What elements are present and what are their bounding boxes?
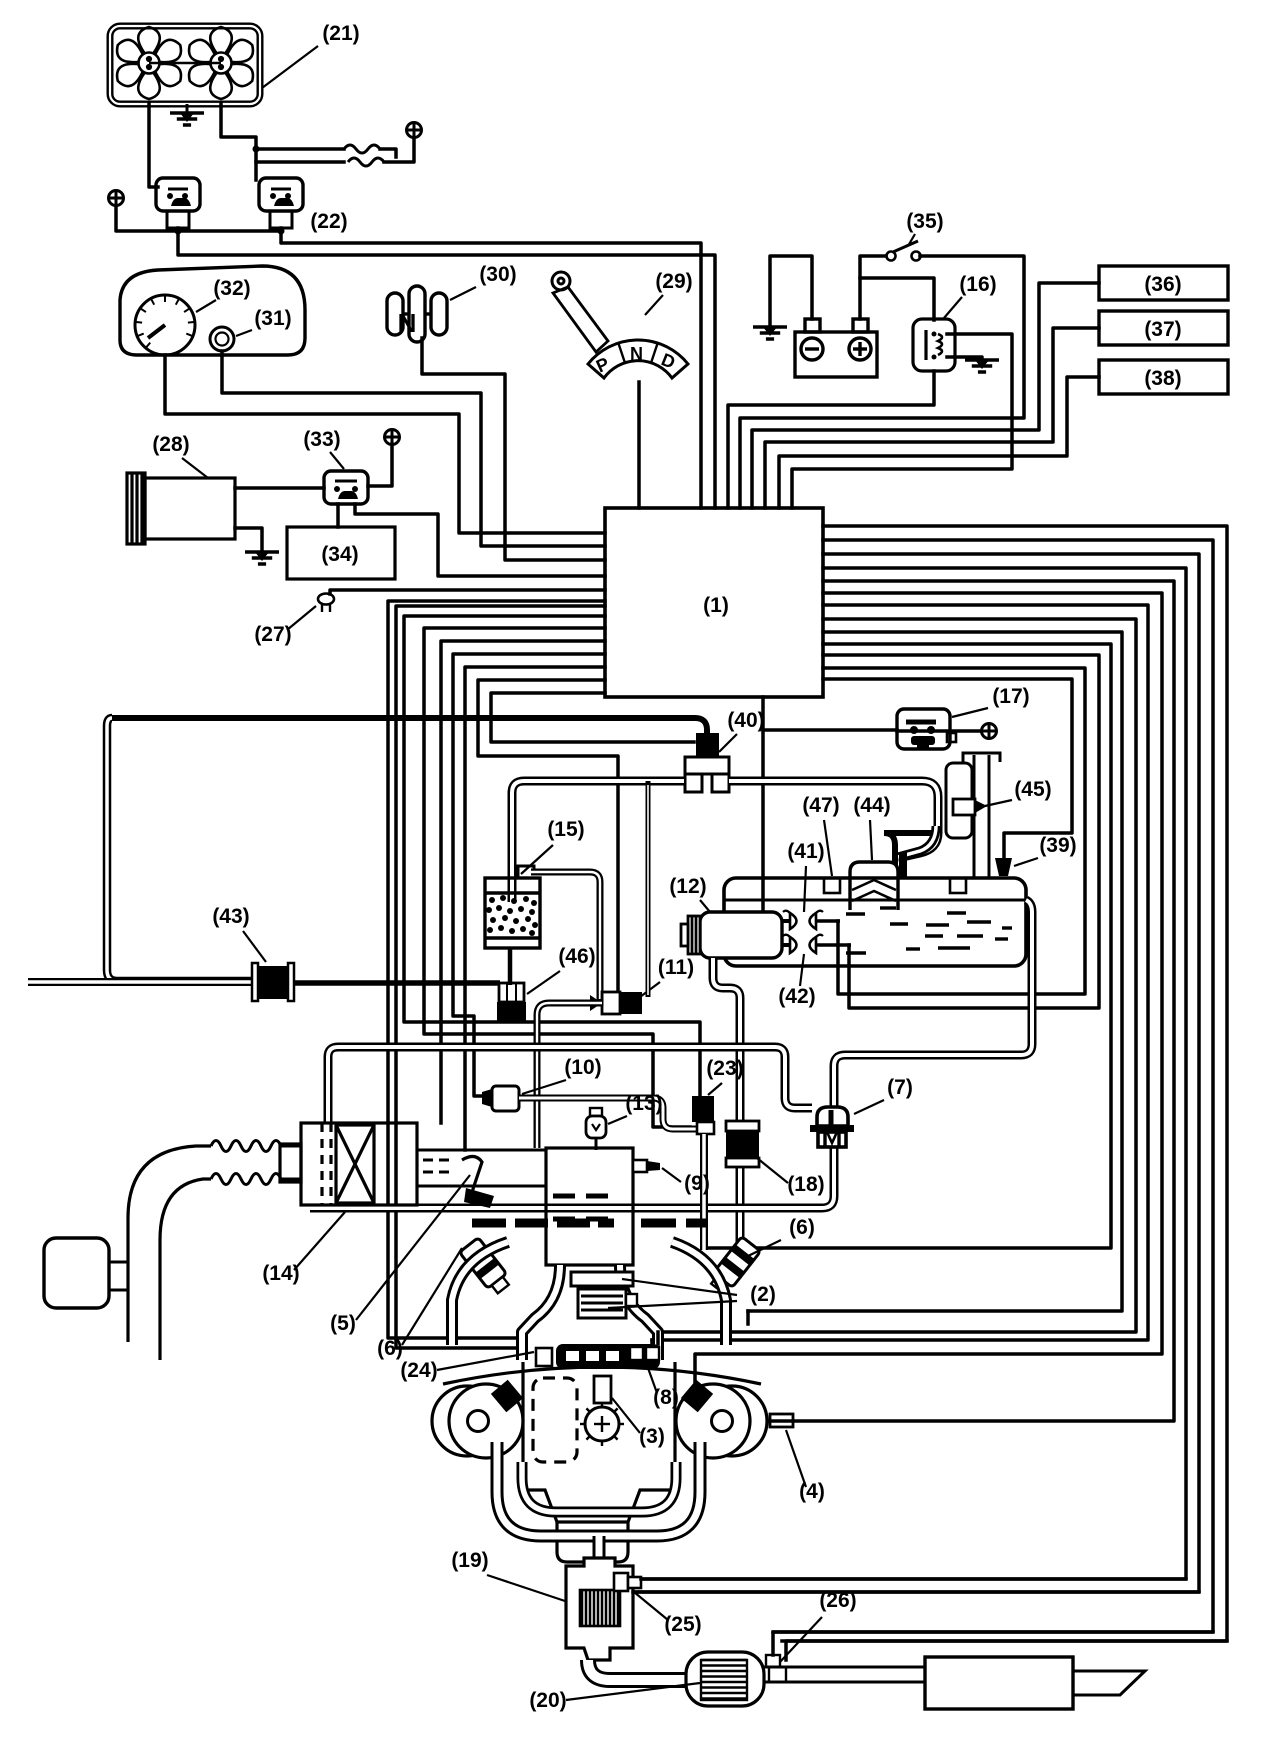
wire shift indicator to ECM: [637, 382, 641, 508]
ignition coil (2): [571, 1272, 633, 1286]
svg-text:(14): (14): [262, 1262, 299, 1285]
wire ECM to valve (42): [823, 655, 1099, 1008]
wire ECM loop 25b: [633, 554, 1199, 1592]
thick line to solenoid 40: [112, 718, 707, 736]
pipe 10 to 23: [519, 1098, 697, 1129]
intake manifold chamber: [546, 1148, 633, 1265]
pipe 40 to filler assembly: [729, 781, 938, 858]
intake gasket dark dashes: [472, 1219, 706, 1228]
svg-text:(15): (15): [547, 818, 584, 841]
fan relay 2 (22): [259, 178, 303, 228]
wire ECM to engine left: [388, 601, 605, 1338]
idle air valve (5): [462, 1156, 482, 1198]
wire 26 to right harness b: [786, 1641, 1227, 1660]
wire cluster to ECM: [165, 355, 605, 533]
label pointer: [944, 297, 962, 318]
fusible link lower: [348, 158, 384, 166]
label pointer: [800, 954, 804, 986]
rollover valve (47) fitting: [824, 878, 840, 893]
purge solenoid (40): [696, 733, 719, 757]
throttle body: [417, 1150, 546, 1186]
label pointer: [634, 1592, 668, 1620]
svg-text:(47): (47): [802, 794, 839, 817]
tank sender terminal (39): [995, 858, 1012, 876]
injector right (6): [707, 1236, 760, 1295]
charcoal canister (15): [485, 878, 540, 948]
wire ECM loop rail2: [658, 619, 1136, 1332]
svg-text:(6): (6): [789, 1216, 815, 1239]
label pointer: [908, 234, 915, 246]
thick hose canister to valve 11: [531, 872, 600, 1003]
wire ECM to right head: [695, 593, 1162, 1382]
label pointer: [612, 1398, 640, 1433]
svg-text:(8): (8): [653, 1386, 679, 1409]
indicator lamp (31): [210, 327, 234, 351]
wire fan link: [149, 62, 221, 64]
label pointer: [622, 1279, 737, 1295]
valve outlet stubs: [816, 919, 840, 923]
sensor (9): [633, 1160, 647, 1172]
svg-text:(2): (2): [750, 1283, 776, 1306]
power terminal left: [109, 191, 124, 206]
svg-text:(27): (27): [254, 623, 291, 646]
power terminal relay33: [385, 430, 400, 445]
wire fuse join: [380, 149, 396, 157]
vapor filter (18): [726, 1121, 759, 1131]
oxygen sensor (25): [614, 1573, 628, 1591]
label pointer: [640, 982, 660, 997]
svg-text:(39): (39): [1039, 834, 1076, 857]
wire ECM to sensor (23): [404, 616, 700, 1096]
shift selector (29): [552, 272, 688, 378]
pipe stub left: [28, 978, 252, 986]
label pointer: [645, 295, 663, 315]
svg-text:(17): (17): [992, 685, 1029, 708]
fan relay 1 (22): [156, 178, 200, 228]
label pointer: [287, 606, 316, 630]
crank sensor (3): [594, 1376, 611, 1403]
label pointer: [243, 931, 266, 962]
pipe 7 to throttle area: [310, 1144, 834, 1208]
air cleaner (14): [280, 1123, 417, 1205]
svg-text:(11): (11): [658, 956, 694, 979]
label pointer: [662, 1168, 681, 1182]
svg-text:(22): (22): [310, 210, 347, 233]
svg-text:(1): (1): [703, 594, 729, 617]
label pointer: [566, 1683, 700, 1700]
wire power to relay2: [116, 206, 281, 231]
vsv valve (10): [482, 1089, 492, 1107]
wire ECM to IAC (5): [465, 667, 605, 1150]
label pointer: [402, 1248, 462, 1345]
label pointer: [748, 1240, 781, 1256]
svg-text:(34): (34): [321, 543, 358, 566]
engine right head: [697, 1386, 767, 1456]
fan motor right: [189, 27, 253, 99]
wire ECM loop rail1: [652, 605, 1148, 1340]
wire relay1 to ECM: [178, 228, 715, 508]
junction dot: [253, 146, 260, 153]
resonator box: [44, 1238, 109, 1308]
center muffler (20): [686, 1652, 764, 1706]
label pointer: [804, 866, 806, 912]
pipe canister12 to injector via 18: [713, 958, 740, 1264]
power terminal 17: [982, 724, 997, 739]
label pointer: [719, 734, 737, 752]
exhaust outlet: [593, 1536, 606, 1572]
fan motor left: [117, 27, 181, 99]
wire blower to relay33: [235, 486, 324, 490]
thick wire 43 to 46: [294, 980, 500, 986]
fuel tank: [724, 878, 1026, 966]
wire box36 to ECM: [752, 283, 1099, 508]
svg-text:(40): (40): [727, 709, 764, 732]
label pointer: [870, 820, 872, 860]
svg-text:(42): (42): [778, 985, 815, 1008]
two-way valve (45): [953, 799, 975, 815]
svg-text:(9): (9): [684, 1172, 710, 1195]
switch (35): [887, 252, 896, 261]
wire fan1 to relay: [149, 104, 158, 187]
instrument cluster housing (32): [120, 266, 305, 355]
fuel rail dark band: [556, 1344, 660, 1369]
wire 25 to right harness a: [641, 1577, 1186, 1581]
valve (42): [790, 937, 816, 953]
label pointer: [262, 46, 318, 88]
label pointer: [648, 1368, 657, 1393]
wire ECM loop inj-r: [748, 632, 1122, 1311]
svg-text:(30): (30): [479, 263, 516, 286]
label pointer: [330, 452, 344, 469]
rear silencer: [925, 1657, 1073, 1709]
tail tip: [1073, 1671, 1145, 1695]
air intake duct: [128, 1146, 211, 1342]
diagnostic connector (27): [318, 594, 334, 605]
ground blower: [245, 552, 279, 564]
label pointer: [854, 1100, 884, 1114]
pipe 40-branch to 11: [646, 781, 651, 997]
plug connectors (24): [491, 1380, 523, 1413]
wire ECM to 23 line: [704, 644, 1111, 1248]
camshaft sprocket: [585, 1407, 619, 1441]
svg-text:(21): (21): [322, 22, 359, 45]
svg-text:(19): (19): [451, 1549, 488, 1572]
svg-text:(38): (38): [1144, 367, 1181, 390]
svg-text:(33): (33): [303, 428, 340, 451]
wire to fuse upper: [256, 147, 344, 151]
wire to main relay: [860, 278, 934, 320]
wire ECM to valve (11): [478, 680, 618, 990]
check valve (11): [590, 995, 602, 1011]
label pointer: [757, 1158, 788, 1183]
exhaust pipe to muffler: [588, 1660, 688, 1680]
svg-text:(32): (32): [213, 277, 250, 300]
svg-text:(37): (37): [1144, 318, 1181, 341]
oxygen sensor (26): [766, 1655, 780, 1667]
vapor canister (12): [700, 912, 782, 958]
ground relay16: [965, 360, 999, 372]
thick hose 11 to manifold: [537, 1003, 602, 1148]
wire relay16 to ground: [947, 357, 982, 360]
corrugated hose: [211, 1141, 281, 1152]
pipe air cleaner to 7: [328, 1047, 812, 1123]
label pointer: [182, 458, 208, 478]
wire fuse to battery feed: [384, 138, 414, 162]
wire stub rail: [650, 1340, 654, 1346]
svg-text:(4): (4): [799, 1480, 825, 1503]
wire stub right injector: [746, 1311, 750, 1324]
damper (8): [630, 1347, 643, 1360]
wire battery plus to switch: [860, 256, 886, 319]
ground battery: [753, 327, 787, 339]
junction dots: [175, 228, 182, 235]
svg-text:(20): (20): [529, 1689, 566, 1712]
label pointer: [608, 1301, 737, 1308]
ground fan: [170, 113, 204, 125]
svg-text:(28): (28): [152, 433, 189, 456]
label pointer: [1014, 858, 1038, 866]
wire 27 to ECM: [330, 590, 605, 594]
sensor (4): [770, 1414, 793, 1427]
label pointer: [522, 1080, 566, 1094]
label pointer: [952, 708, 988, 717]
wire to sender unit 17: [763, 728, 897, 732]
thick pipe drop to pump: [898, 826, 936, 857]
speedometer gauge: [135, 295, 195, 355]
intake runner outer left: [452, 1242, 508, 1345]
label pointer: [786, 1430, 806, 1487]
svg-text:(23): (23): [706, 1057, 743, 1080]
wire box38 to ECM: [779, 377, 1099, 508]
svg-text:(25): (25): [664, 1613, 701, 1636]
pipe 23 down: [700, 1134, 708, 1250]
pipe 40 to canister 15: [512, 781, 684, 902]
intake runner right: [620, 1265, 658, 1360]
wire ECM to 23 lower: [424, 628, 690, 1127]
svg-text:(18): (18): [787, 1173, 824, 1196]
wire relay33 to box34: [336, 504, 340, 527]
wire battery minus to ground: [770, 256, 812, 327]
tank top fitting right: [950, 878, 966, 893]
wire ECM to air cleaner a: [441, 641, 605, 1123]
engine left head: [432, 1386, 502, 1456]
wire ECM to valve (41): [823, 668, 1085, 994]
battery: [795, 319, 877, 377]
fuel filler neck: [946, 753, 1000, 877]
wire fan frame to ground: [186, 104, 189, 113]
blower motor (28): [127, 473, 235, 544]
svg-text:(5): (5): [330, 1312, 356, 1335]
module box (38): [1099, 360, 1228, 394]
wire ECM loop 4: [793, 581, 1174, 1421]
svg-text:(36): (36): [1144, 273, 1181, 296]
svg-text:(41): (41): [787, 840, 824, 863]
radiator fan assembly (21) frame: [110, 26, 260, 104]
map sensor (13): [590, 1108, 602, 1116]
connector (46): [499, 983, 524, 1002]
connector (43): [256, 966, 290, 999]
relay (33): [324, 471, 368, 504]
svg-text:(45): (45): [1014, 778, 1051, 801]
pipe 7 to tank: [834, 900, 1032, 1108]
wire 26 to right harness a: [773, 1632, 1213, 1655]
label pointer: [196, 300, 216, 312]
wire relay16 to ECM: [728, 371, 934, 508]
engine block: [443, 1362, 761, 1562]
svg-text:(35): (35): [906, 210, 943, 233]
exhaust crossover: [497, 1442, 700, 1536]
wire ECM to engine left 2: [396, 606, 605, 1348]
canister top fitting: [518, 866, 534, 878]
module box (36): [1099, 266, 1228, 300]
intake runner left: [522, 1265, 560, 1360]
wire ECM loop 25a: [641, 568, 1186, 1579]
wire 17 to power: [897, 729, 981, 733]
valve (41): [790, 913, 816, 929]
battery feed terminal: [407, 123, 422, 138]
wire ECM to solenoid (40): [491, 693, 694, 742]
svg-text:(43): (43): [212, 905, 249, 928]
label pointer: [780, 1617, 822, 1662]
wire 25 to right harness b: [633, 1590, 1199, 1594]
wire ECM loop 26a: [782, 526, 1227, 1641]
wire ECM to fuel sender (39): [823, 679, 1072, 858]
wire 4 stub: [770, 1419, 793, 1423]
label pointer: [450, 287, 476, 300]
label pointer: [700, 900, 710, 912]
fusible link upper: [344, 145, 380, 153]
label pointer: [527, 971, 560, 994]
label pointer: [824, 820, 832, 876]
wire to fuse lower: [256, 160, 344, 164]
pressure sensor (23): [692, 1096, 714, 1122]
wire switch to ECM: [740, 256, 1024, 508]
svg-text:(46): (46): [558, 945, 595, 968]
canister drain pipe: [508, 948, 513, 985]
intake runner outer right: [672, 1242, 726, 1345]
box (34): [287, 527, 395, 579]
label pointer: [356, 1175, 470, 1320]
wire box37 to ECM: [765, 328, 1099, 508]
label pointer: [608, 1116, 627, 1124]
label pointer: [294, 1212, 345, 1270]
module box (37): [1099, 311, 1228, 345]
main relay (16): [913, 319, 955, 371]
wire relay2 to ECM: [281, 228, 701, 508]
exhaust tail pipe: [764, 1667, 925, 1682]
svg-text:(12): (12): [669, 875, 706, 898]
svg-text:(13): (13): [625, 1092, 662, 1115]
catalyst hatching: [580, 1590, 620, 1626]
hose canister to valve41: [782, 919, 790, 923]
thick line left drop: [107, 718, 252, 981]
fuel pump assembly (44): [850, 862, 898, 910]
canister charcoal dots: [486, 895, 538, 936]
svg-text:(31): (31): [254, 307, 291, 330]
wire ECM to valve (10): [453, 654, 605, 1096]
wire stub rail2: [656, 1332, 660, 1344]
ECM (1): [605, 508, 823, 697]
label pointer: [236, 330, 252, 336]
wire relay33 to ECM: [355, 504, 605, 576]
label pointer: [985, 800, 1012, 806]
fuel level dashes: [846, 908, 1012, 953]
wire fan2 to relay: [221, 104, 256, 180]
wire ECM to canister 12: [761, 697, 765, 910]
svg-text:(10): (10): [564, 1056, 601, 1079]
wire ignition switch to ECM: [422, 338, 605, 560]
svg-text:(26): (26): [819, 1589, 856, 1612]
fuel sender unit (17): [897, 709, 956, 749]
injector left (6): [459, 1237, 512, 1296]
svg-text:(3): (3): [639, 1425, 665, 1448]
svg-text:(24): (24): [400, 1359, 437, 1382]
wire relay33 to power: [368, 444, 392, 486]
svg-text:(7): (7): [887, 1076, 913, 1099]
svg-text:N: N: [630, 344, 643, 364]
label pointer: [708, 1083, 722, 1095]
wire relay16 out to ECM: [792, 334, 1012, 508]
svg-text:(16): (16): [959, 273, 996, 296]
wire lamp31 to ECM: [222, 351, 605, 546]
wire ECM loop 26b: [773, 540, 1213, 1632]
wire blower to ground: [235, 528, 262, 550]
exhaust crossover inner: [522, 1462, 676, 1512]
label pointer: [487, 1575, 565, 1601]
label pointer: [437, 1352, 534, 1370]
front catalyst (19): [566, 1558, 633, 1660]
label pointer: [521, 845, 553, 874]
fuel filter (7): [810, 1107, 854, 1147]
svg-text:(29): (29): [655, 270, 692, 293]
svg-text:(44): (44): [853, 794, 890, 817]
svg-text:(6): (6): [377, 1337, 403, 1360]
